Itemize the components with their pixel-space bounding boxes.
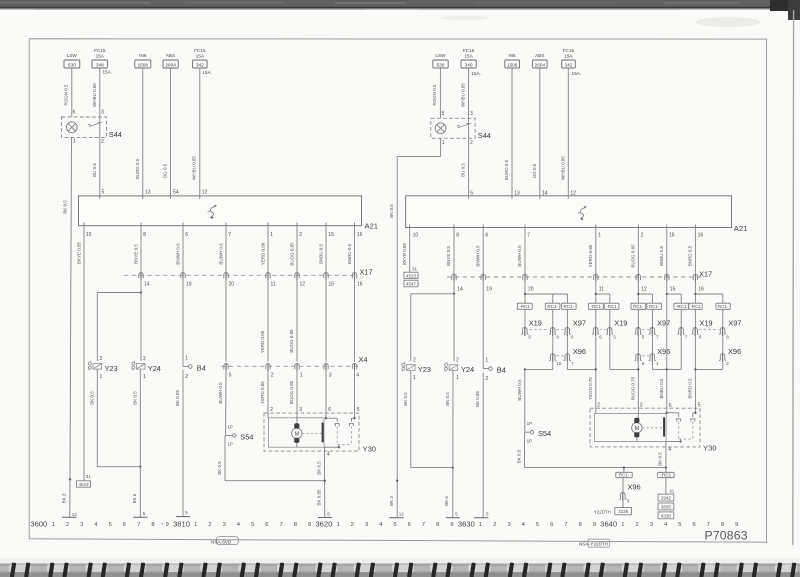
ground at track 7 [133, 511, 147, 517]
svg-text:3600: 3600 [30, 520, 47, 529]
svg-text:12: 12 [641, 287, 647, 293]
svg-text:8: 8 [436, 522, 439, 528]
svg-text:BUOG 0.75: BUOG 0.75 [630, 376, 635, 400]
svg-text:-RC1: -RC1 [661, 473, 672, 478]
plug bridge -RC1 on pin 11 wire [589, 303, 604, 309]
svg-text:BK 0.5: BK 0.5 [89, 391, 94, 405]
wire ROGN 0.5 from 530 to S44 pin 6 [64, 68, 72, 117]
svg-text:3: 3 [650, 522, 653, 528]
svg-text:12: 12 [300, 281, 306, 287]
wire BNRD from X17 pin 16 right with bridge branch [694, 282, 723, 304]
svg-text:S44: S44 [109, 130, 122, 139]
svg-text:BNRD 0.5: BNRD 0.5 [347, 243, 352, 264]
svg-text:1: 1 [100, 374, 103, 380]
svg-text:2: 2 [413, 357, 416, 363]
ground joint box 4623 term 31 [77, 474, 92, 487]
svg-text:11: 11 [599, 287, 604, 293]
wire BK 0.5 from Y23 right to joint with Y24 [403, 370, 454, 468]
svg-text:10: 10 [556, 361, 562, 366]
svg-text:A21: A21 [734, 224, 748, 233]
svg-text:1: 1 [300, 372, 303, 378]
wire BNRD 0.5 from A21 pin 16 to X17 pin 16 [347, 223, 355, 276]
svg-text:6: 6 [123, 522, 126, 528]
wire BUWH 0.5 from A21 pin 7 to X17 pin 20 [218, 223, 226, 276]
svg-text:BK 3: BK 3 [389, 496, 394, 506]
svg-text:6: 6 [185, 232, 188, 238]
svg-text:BK 0.5: BK 0.5 [62, 200, 67, 214]
svg-text:OG 0.5: OG 0.5 [163, 163, 168, 178]
caption NSA-6VD [211, 537, 238, 545]
svg-text:31: 31 [669, 488, 675, 493]
plug bridge -RC1 to ground joints 2942 3835 4338 term 31 [658, 468, 675, 519]
svg-text:1P: 1P [227, 442, 233, 447]
svg-text:8: 8 [579, 522, 582, 528]
supply terminal ABS 2804 [163, 53, 178, 68]
svg-text:1: 1 [143, 374, 146, 380]
svg-text:5: 5 [678, 522, 681, 528]
handbrake switch S54 right [525, 421, 551, 443]
connector X19 branch pin 9 and X96 pin 10 [524, 309, 562, 370]
X17 pin numbers 14 19 20 11 12 15 16 [144, 281, 363, 287]
wire BK 0.5 / BK 6 from Y24 right to ground track 9 [444, 370, 453, 517]
fuse FC15 15A terminal 340 [461, 48, 481, 76]
svg-text:15: 15 [329, 281, 335, 287]
wire BNBU 0.5 from A21 pin 15 to X17 pin 15 [318, 223, 326, 276]
svg-text:BNRD 0.5: BNRD 0.5 [688, 378, 693, 399]
svg-text:BUOG 0.85: BUOG 0.85 [289, 380, 294, 404]
svg-text:13: 13 [514, 190, 520, 196]
fuse FC15 15A terminal 342 [193, 48, 212, 75]
plug bridge RC1- on pin 12 wire [631, 303, 646, 309]
connector X97 pins 5 7 and X96 pins 6 1 [630, 309, 670, 408]
svg-text:RC1-: RC1- [547, 304, 558, 309]
linkage dashes between bridge connectors [557, 330, 720, 356]
svg-text:ROGN 0.5: ROGN 0.5 [432, 84, 437, 106]
svg-text:2: 2 [456, 357, 459, 363]
svg-text:8: 8 [456, 232, 459, 238]
svg-text:5: 5 [109, 522, 112, 528]
svg-text:BK 3: BK 3 [62, 493, 67, 503]
svg-text:1: 1 [413, 375, 416, 381]
ground at track 9 right [446, 512, 460, 518]
svg-text:2: 2 [635, 522, 638, 528]
svg-text:BUOG 0.85: BUOG 0.85 [289, 242, 294, 266]
svg-text:14: 14 [457, 287, 463, 293]
svg-text:15A.: 15A. [103, 70, 113, 75]
svg-text:10: 10 [413, 232, 419, 238]
svg-text:X19: X19 [699, 319, 712, 328]
svg-text:16: 16 [357, 232, 363, 238]
supply terminal ABS 2604 [533, 53, 548, 68]
svg-text:1: 1 [598, 232, 601, 238]
svg-text:2: 2 [101, 139, 104, 145]
wire BUOG 0.85 from X17 pin 12 through X4 pin 1 to Y30 pin 3 [289, 280, 297, 413]
svg-text:BK 6: BK 6 [132, 493, 137, 503]
fuse FC15 15A terminal 348 [92, 48, 112, 75]
wire OG 0.5 from 2604 to A21 pin 14 right [532, 68, 540, 196]
svg-text:BK 0.5: BK 0.5 [317, 461, 322, 475]
svg-text:530: 530 [437, 63, 445, 68]
svg-text:M: M [295, 432, 300, 438]
svg-text:B4: B4 [197, 363, 206, 372]
svg-text:1508: 1508 [138, 63, 149, 68]
svg-text:Y23: Y23 [418, 365, 431, 374]
svg-text:7: 7 [422, 522, 425, 528]
svg-text:X17: X17 [699, 269, 712, 278]
wire BK 0.5 from Y30 pin 4 right to ground bus [658, 442, 672, 469]
svg-text:BK 0.5: BK 0.5 [517, 449, 522, 463]
svg-text:5: 5 [442, 111, 445, 117]
svg-text:3: 3 [470, 111, 473, 117]
svg-text:1: 1 [185, 356, 188, 362]
svg-text:1: 1 [52, 522, 55, 528]
wire BKYE 0.85 from A21 pin 10 to joint 4623 [76, 223, 84, 481]
svg-text:7: 7 [279, 522, 282, 528]
plug bridge RC1- to X96 pin 3 [616, 466, 632, 477]
wire WHBU 0.85 from 342 to A21 pin 12 [192, 68, 200, 196]
svg-text:YERD 0.85: YERD 0.85 [260, 330, 265, 353]
svg-text:Y24: Y24 [148, 364, 161, 373]
svg-text:8: 8 [294, 522, 297, 528]
svg-text:19: 19 [486, 287, 492, 293]
svg-text:BURD 0.5: BURD 0.5 [504, 159, 509, 180]
ground at track 3610 [176, 510, 190, 516]
wire BNYE 0.5 from A21 pin 8 to X17 pin 14 [133, 223, 141, 276]
svg-text:5: 5 [698, 402, 701, 408]
svg-text:15A.: 15A. [572, 71, 582, 76]
svg-text:FC15: FC15 [463, 48, 475, 53]
plug bridge RC1- branch 1 [545, 303, 560, 309]
svg-text:2: 2 [470, 140, 473, 146]
wire WHBU 0.85 from 340 to S44 pin 3 right [461, 68, 469, 118]
svg-text:-RC1: -RC1 [676, 304, 687, 309]
svg-text:NSA-Y22DTH: NSA-Y22DTH [579, 542, 608, 547]
svg-text:6: 6 [408, 522, 411, 528]
brake light switch B4 [183, 280, 206, 380]
A21 bottom pin numbers 10 8 6 7 1 2 15 16 [84, 223, 363, 238]
wire BK 0.85 from B4 right to ground track 1 [475, 372, 483, 518]
svg-text:1P: 1P [227, 424, 233, 429]
wire BU 0.5 from S44 pin 2 to A21 pin 5 [92, 137, 100, 196]
svg-text:7: 7 [527, 232, 530, 238]
connector X17 right [447, 269, 712, 281]
svg-text:19: 19 [186, 281, 192, 287]
caption NSA-Y22DTH [579, 539, 610, 547]
svg-text:Y22DTH: Y22DTH [594, 510, 611, 515]
svg-text:RC1-: RC1- [633, 304, 644, 309]
svg-text:YERD 0.86: YERD 0.86 [260, 242, 265, 265]
svg-text:1: 1 [621, 522, 624, 528]
wire BK 0.5 from S44 pin 1 right to ground track 5 [389, 138, 441, 517]
wire BK 0.5 from Y23 pin 1 to joint with Y24 [89, 369, 141, 468]
svg-text:2: 2 [270, 407, 273, 413]
plug bridge RC1- branch [647, 303, 662, 309]
svg-text:BNBU 0.5: BNBU 0.5 [659, 246, 664, 267]
svg-text:348: 348 [96, 63, 104, 68]
svg-text:LSW: LSW [435, 53, 446, 58]
svg-text:16: 16 [357, 281, 363, 287]
svg-text:12: 12 [570, 190, 576, 196]
solenoid valve Y24 [132, 356, 161, 380]
svg-text:2942: 2942 [661, 496, 672, 501]
connector X97 branch pin 6 and X96 pin 7 [564, 309, 596, 369]
svg-text:FC15: FC15 [563, 48, 575, 53]
wire BUWH 0.5 from A21 pin 7 right to X17 pin 20 [517, 228, 525, 278]
handbrake switch S54 [226, 424, 254, 446]
svg-text:WHBU 0.85: WHBU 0.85 [92, 83, 97, 107]
svg-text:9: 9 [593, 522, 596, 528]
svg-text:9: 9 [735, 522, 738, 528]
wire WHBU 0.85 from 342 to A21 pin 12 right [560, 68, 568, 196]
svg-text:5: 5 [102, 189, 105, 195]
svg-text:4338: 4338 [661, 513, 672, 518]
suppression element (thick bar) inside Y30 [322, 423, 324, 443]
svg-text:6: 6 [485, 232, 488, 238]
svg-text:FC15: FC15 [94, 48, 106, 53]
svg-text:RC1-: RC1- [718, 304, 729, 309]
svg-text:8: 8 [143, 232, 146, 238]
svg-text:2: 2 [208, 522, 211, 528]
svg-text:3: 3 [640, 402, 643, 408]
sunroof motor assembly Y30 right [590, 402, 716, 452]
wire BNBU from X17 pin 15 right with bridge branch [659, 282, 681, 409]
svg-text:BK 6: BK 6 [444, 496, 449, 506]
fuse FC15 15A terminal 342 right [562, 48, 581, 76]
plug bridge RC1- branch of pin 16 [716, 303, 730, 309]
svg-text:16: 16 [698, 232, 704, 238]
svg-text:X17: X17 [360, 267, 373, 276]
svg-text:BK 0.5: BK 0.5 [403, 392, 408, 406]
svg-text:7: 7 [228, 232, 231, 238]
suppression element (thick bar) inside Y30 right [663, 417, 665, 436]
svg-text:BNYE 0.5: BNYE 0.5 [133, 244, 138, 264]
svg-text:2: 2 [493, 522, 496, 528]
ground at track 5 right [390, 511, 405, 517]
svg-text:2: 2 [597, 402, 600, 408]
svg-text:3835: 3835 [661, 504, 672, 509]
svg-text:RC1-: RC1- [649, 304, 660, 309]
solenoid valve Y23 right [402, 357, 431, 381]
svg-text:-RC1: -RC1 [591, 304, 602, 309]
svg-text:BK 0.5: BK 0.5 [389, 204, 394, 218]
svg-text:WHBU 0.85: WHBU 0.85 [560, 156, 565, 180]
ground joint boxes 4523 4547 term 31 [404, 267, 418, 287]
svg-text:7: 7 [564, 522, 567, 528]
A21 right bottom pin numbers 10 8 6 7 1 2 15 16 [410, 224, 704, 238]
svg-text:A21: A21 [365, 222, 379, 231]
sunroof motor assembly Y30 [264, 407, 376, 454]
supply terminal 530 (LSW) right [433, 53, 448, 68]
svg-text:15A: 15A [96, 53, 105, 58]
Y30 right internal limit switch contacts [666, 408, 697, 442]
svg-text:RC1-: RC1- [619, 473, 630, 478]
connector X96 pin 3 to Y22DTH joint 2239 [594, 478, 641, 515]
svg-text:YERD-0.85: YERD-0.85 [588, 244, 593, 267]
svg-text:IN6: IN6 [139, 53, 147, 58]
svg-text:6: 6 [550, 522, 553, 528]
plug bridge -RC1 branch of pin 15 [674, 303, 689, 309]
svg-text:15: 15 [670, 287, 676, 293]
svg-text:3620: 3620 [315, 520, 332, 529]
svg-text:31: 31 [412, 267, 418, 272]
wire BK 0.5 from S44 pin 1 to ground 3600/2 [62, 137, 72, 517]
A21 top pin numbers 5 13 54 12 [100, 189, 208, 199]
svg-text:1506: 1506 [507, 63, 518, 68]
svg-text:3: 3 [329, 372, 332, 378]
ground at track 3620 [318, 511, 332, 517]
svg-text:OG 0.5: OG 0.5 [532, 163, 537, 178]
svg-text:ABS: ABS [166, 53, 175, 58]
svg-text:1P: 1P [527, 421, 533, 426]
svg-text:BK 0.5: BK 0.5 [658, 452, 663, 466]
connector X97 pin 7 branch [667, 309, 688, 369]
svg-text:4547: 4547 [406, 281, 417, 286]
svg-text:2: 2 [485, 376, 488, 382]
ground at track 2 [62, 512, 77, 517]
svg-text:3: 3 [299, 407, 302, 413]
svg-text:BNBU 0.5: BNBU 0.5 [659, 378, 664, 399]
connector X97 pin 8 and X96 pin 2 branch [695, 309, 741, 369]
svg-text:8: 8 [721, 522, 724, 528]
wire BNRD 0.5 from X17 pin 16 through X4 pin 4 to Y30 pin 5 [354, 280, 356, 413]
svg-text:BK 0.5: BK 0.5 [132, 391, 137, 405]
svg-text:54: 54 [173, 189, 179, 195]
svg-text:X96: X96 [728, 347, 741, 356]
connector X4 [221, 355, 367, 371]
svg-text:3: 3 [80, 522, 83, 528]
wire YERD 0.85 from A21 pin 1 to X17 pin 11 [260, 223, 268, 276]
svg-text:6: 6 [265, 522, 268, 528]
svg-text:-RC1: -RC1 [690, 304, 701, 309]
wire BUWH 0.5 from X17 pin 20 through X4 pin 5 to S54 [218, 280, 226, 436]
switch S44 with illumination lamp right [431, 111, 491, 146]
svg-text:BNBU 0.5: BNBU 0.5 [318, 244, 323, 265]
svg-text:1: 1 [442, 140, 445, 146]
svg-text:P70863: P70863 [705, 528, 748, 542]
svg-text:BKYE 0.85: BKYE 0.85 [402, 242, 407, 265]
svg-text:BK 0.85: BK 0.85 [475, 390, 480, 407]
svg-text:2: 2 [299, 232, 302, 238]
svg-text:LSW: LSW [67, 53, 78, 58]
Y30 internal limit switch contacts [324, 413, 356, 448]
svg-text:5: 5 [393, 522, 396, 528]
svg-text:14: 14 [144, 281, 150, 287]
svg-text:3: 3 [101, 110, 104, 116]
svg-text:WHBU 0.85: WHBU 0.85 [461, 83, 466, 107]
svg-text:5: 5 [251, 522, 254, 528]
svg-text:X97: X97 [728, 319, 741, 328]
wire WHBU 0.85 from 348 to S44 pin 3 [92, 68, 100, 117]
svg-text:1: 1 [270, 232, 273, 238]
svg-text:BK 0.85: BK 0.85 [316, 489, 321, 506]
svg-text:342: 342 [196, 63, 204, 68]
svg-text:9: 9 [166, 522, 169, 528]
wire BNBU 0.5 from X17 pin 15 through X4 pin 3 to Y30 pin 6 [325, 280, 327, 413]
svg-text:3640: 3640 [600, 520, 617, 529]
wire BKYE 0.85 from A21 pin 10 right to joint 4523/4547 [402, 228, 410, 273]
svg-text:BNWH 0.5: BNWH 0.5 [175, 243, 180, 265]
svg-text:16: 16 [698, 287, 704, 293]
svg-text:M: M [635, 426, 640, 432]
wire BK 0.5 / BK 6 from Y24 pin 1 to ground track 7 [132, 369, 140, 517]
wire BURD 0.5 from 1508 to A21 pin 13 [135, 68, 143, 196]
wire YERD 0.85 from X17 pin 11 through X4 pin 2 to Y30 pin 2 [260, 280, 268, 413]
svg-text:15A: 15A [464, 53, 473, 58]
svg-text:BK 0.5: BK 0.5 [445, 392, 450, 406]
connector X19 on pin 20 wire pin 9 [521, 309, 548, 339]
svg-text:5: 5 [470, 190, 473, 196]
svg-text:RC1-: RC1- [564, 304, 575, 309]
svg-text:2: 2 [271, 372, 274, 378]
svg-text:3630: 3630 [458, 520, 475, 529]
svg-text:530: 530 [68, 63, 76, 68]
supply terminal 530 (LSW) [64, 53, 80, 68]
plug bridge -RC1 on pin 16 wire [689, 303, 702, 309]
svg-text:31: 31 [86, 474, 92, 479]
svg-text:S44: S44 [478, 131, 491, 140]
svg-text:X19: X19 [614, 319, 627, 328]
svg-text:5: 5 [229, 372, 232, 378]
svg-text:BNRD 0.5: BNRD 0.5 [688, 245, 693, 266]
svg-text:1: 1 [479, 522, 482, 528]
solenoid valve Y23 [88, 356, 117, 380]
svg-text:1: 1 [194, 522, 197, 528]
svg-text:7: 7 [707, 522, 710, 528]
svg-text:4: 4 [327, 452, 330, 458]
svg-text:3: 3 [223, 522, 226, 528]
svg-text:Y24: Y24 [461, 365, 474, 374]
A21 right top pin numbers 5 13 14 12 [469, 190, 577, 199]
svg-text:BUWH 0.5: BUWH 0.5 [517, 379, 522, 401]
wire from X17 pin 14 right branching to Y23 and Y24 [411, 282, 455, 361]
svg-text:IN6: IN6 [508, 53, 516, 58]
connector X17 [124, 267, 373, 280]
wire BUOG from X17 pin 12 right with bridge branch [637, 282, 652, 304]
svg-text:15: 15 [328, 232, 334, 238]
svg-text:5: 5 [536, 522, 539, 528]
control unit A21 right [406, 196, 748, 233]
svg-text:2: 2 [185, 374, 188, 380]
svg-text:7: 7 [137, 522, 140, 528]
svg-text:X97: X97 [657, 319, 670, 328]
wire OG 0.5 from 2804 to A21 pin 54 [163, 68, 171, 196]
svg-text:X96: X96 [628, 483, 641, 492]
svg-text:-RC1: -RC1 [519, 304, 530, 309]
plug bridge -RC1 on pin 20 wire [517, 303, 532, 309]
svg-text:NSA-6VD: NSA-6VD [211, 539, 232, 544]
svg-text:2: 2 [66, 522, 69, 528]
wire BNBU 0.5 from A21 pin 15 right to X17 pin 15 [659, 228, 667, 278]
motor M inside Y30 right [632, 418, 662, 442]
svg-text:4: 4 [356, 372, 359, 378]
solenoid valve Y24 right [445, 357, 475, 381]
svg-text:BUWH 0.5: BUWH 0.5 [218, 243, 223, 265]
svg-text:S54: S54 [240, 432, 253, 441]
svg-text:3: 3 [507, 522, 510, 528]
svg-text:X96: X96 [573, 347, 586, 356]
switch S44 with illumination lamp [62, 110, 122, 145]
supply terminal IN6 1506 [505, 53, 520, 68]
current track number row 3600-3649 [30, 520, 738, 529]
plug bridge RC1- branch 2 [562, 303, 577, 309]
svg-text:BKYE 0.85: BKYE 0.85 [76, 241, 81, 264]
wire BK 0.5 from S54 right to ground bus [517, 432, 666, 467]
svg-text:2: 2 [351, 522, 354, 528]
svg-text:2: 2 [143, 356, 146, 362]
svg-text:BNWH 0.5: BNWH 0.5 [475, 245, 480, 267]
wire BNRD 0.5 from A21 pin 16 right to X17 pin 16 [688, 228, 696, 278]
svg-text:ROGN 0.5: ROGN 0.5 [64, 84, 69, 106]
